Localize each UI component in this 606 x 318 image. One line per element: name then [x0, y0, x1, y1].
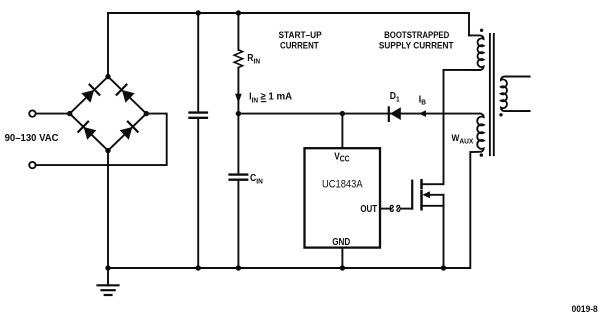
svg-text:GND: GND	[332, 236, 350, 247]
wire top rail	[108, 13, 469, 77]
svg-text:CIN: CIN	[250, 172, 263, 185]
wire GND pin	[341, 248, 343, 268]
squiggle break mark 1	[390, 205, 393, 211]
diode CR4 lower-right	[119, 122, 137, 140]
svg-text:UC1843A: UC1843A	[322, 179, 363, 191]
wire source stub	[422, 205, 444, 207]
node filter-cap bottom junction	[196, 265, 201, 270]
node mid-rail RIN/CIN junction	[236, 111, 241, 116]
node bridge bottom	[105, 148, 110, 153]
svg-text:0019-8: 0019-8	[572, 303, 598, 314]
node bridge right	[144, 111, 149, 116]
node bridge left	[67, 111, 72, 116]
transistor Q1 MOSFET gate	[411, 181, 413, 209]
phase dot WAUX	[480, 153, 483, 156]
diode CR2 upper-right	[117, 85, 135, 103]
wire AC lower loop to bridge right	[36, 114, 167, 166]
transformer primary winding	[444, 35, 484, 70]
wire bottom rail	[108, 267, 469, 269]
node mid-rail VCC junction	[340, 111, 345, 116]
arrow body	[422, 191, 430, 198]
svg-text:OUT: OUT	[360, 203, 377, 214]
wire drain stub	[422, 71, 444, 185]
terminal AC upper	[29, 110, 35, 116]
phase dot primary	[480, 29, 483, 32]
svg-text:IB: IB	[419, 94, 426, 107]
svg-text:START–UP: START–UP	[278, 30, 321, 41]
capacitor CIN	[237, 114, 239, 174]
terminal AC lower	[29, 162, 35, 168]
node top-rail filter-cap junction	[196, 10, 201, 15]
capacitor bulk filter	[197, 13, 199, 111]
wire OUT pin	[380, 208, 390, 210]
transformer WAUX winding	[470, 114, 483, 268]
svg-text:BOOTSTRAPPED: BOOTSTRAPPED	[384, 29, 449, 40]
diode CR3 lower-left	[78, 122, 96, 140]
wire source to ground rail	[443, 195, 445, 268]
wire bridge bottom to ground rail	[107, 151, 109, 268]
transistor Q1 channel segments	[420, 180, 423, 188]
wire OUT to gate	[401, 208, 412, 210]
phase dot secondary	[499, 113, 502, 116]
svg-text:WAUX: WAUX	[452, 133, 474, 146]
svg-text:90–130 VAC: 90–130 VAC	[5, 133, 59, 144]
diode CR1 upper-left	[81, 85, 99, 103]
node source junction	[441, 265, 446, 270]
squiggle break mark 2	[397, 205, 400, 211]
svg-text:IIN: IIN	[249, 91, 258, 105]
node ground junction	[105, 265, 110, 270]
op-amp U1 UC1843A box	[305, 148, 381, 247]
node GND junction	[340, 265, 345, 270]
wire AC upper to bridge left	[36, 113, 70, 115]
svg-text:SUPPLY CURRENT: SUPPLY CURRENT	[379, 40, 454, 51]
ground	[107, 268, 109, 285]
transformer secondary winding	[501, 77, 530, 112]
node top-rail RIN junction	[236, 10, 241, 15]
diode D1	[388, 107, 390, 121]
transformer core	[489, 34, 491, 155]
svg-text:D1: D1	[390, 90, 400, 103]
wire mid rail	[238, 113, 480, 115]
arrow IIN down	[235, 94, 242, 103]
svg-text:RIN: RIN	[247, 52, 260, 65]
node CIN bottom junction	[236, 265, 241, 270]
wire VCC pin	[341, 114, 343, 149]
node bridge top	[105, 74, 110, 79]
resistor RIN	[237, 13, 239, 50]
svg-text:CURRENT: CURRENT	[280, 40, 319, 51]
arrow IB left	[419, 110, 426, 117]
bridge rectifier arms	[70, 77, 147, 151]
